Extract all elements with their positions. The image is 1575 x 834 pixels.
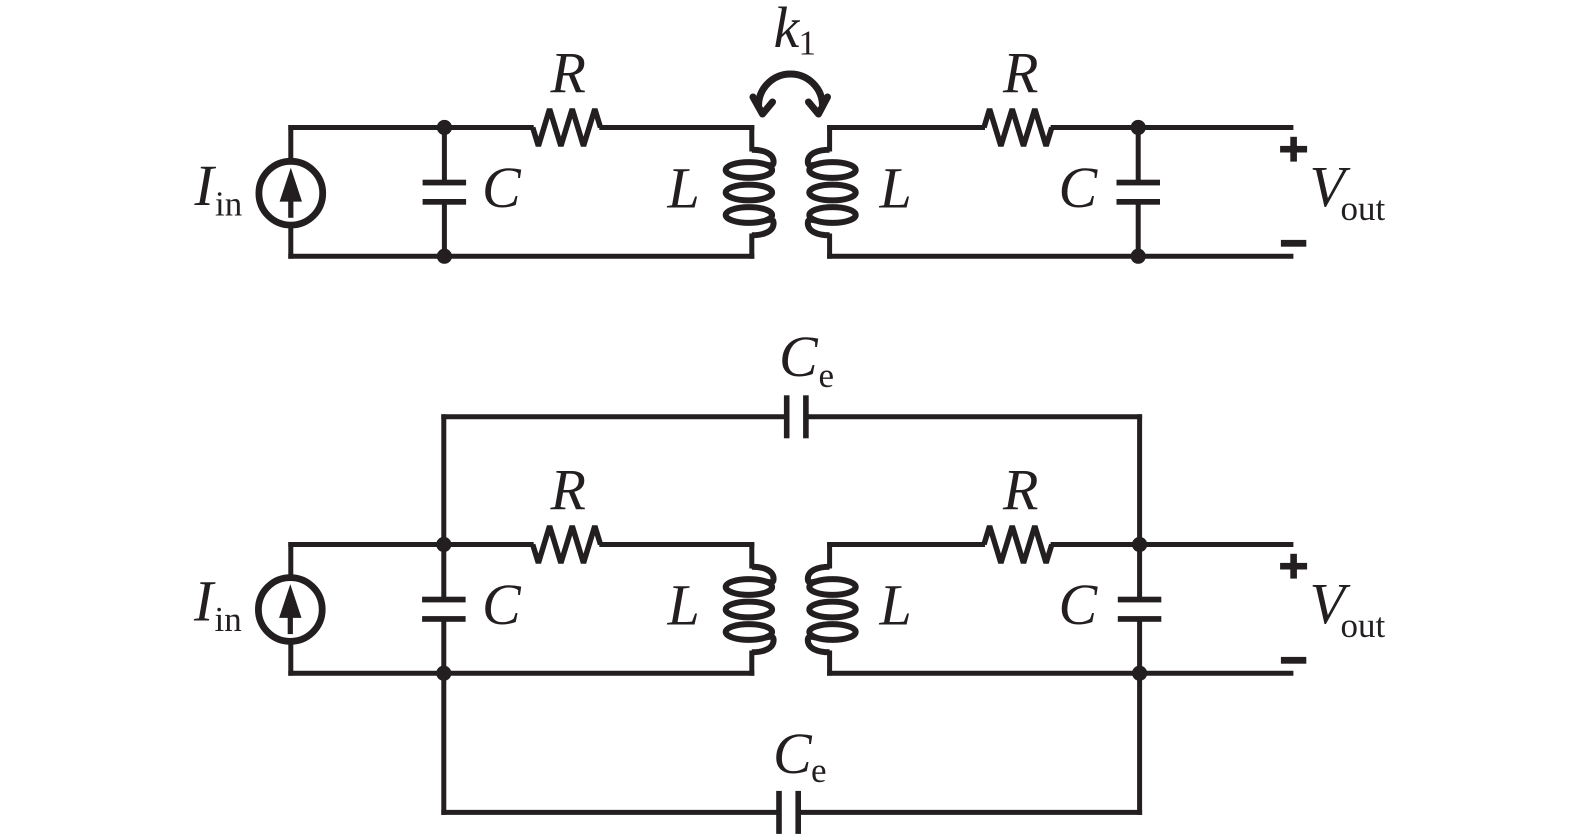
svg-text:L: L — [667, 156, 700, 221]
wire: outer bottom wire left segment (to Ce) — [441, 810, 778, 815]
wire: source left vertical bottom stub (bottom circuit) — [288, 641, 293, 676]
node dot: top-left node — [437, 120, 452, 135]
node dot: bottom-left node — [437, 249, 452, 264]
wire: left inductor top stub (top circuit) — [749, 125, 754, 152]
capacitor C (top-left shunt) — [423, 180, 467, 186]
wire: shunt capacitor C lower lead (top-left) — [442, 202, 447, 256]
wire: top-left horizontal (source to resistor R) — [288, 125, 533, 130]
svg-text:R: R — [1002, 457, 1038, 522]
svg-text:I: I — [193, 569, 216, 634]
resistor R (bottom-left) — [533, 526, 601, 563]
svg-text:L: L — [667, 573, 700, 638]
node dot: top-right node — [1131, 120, 1146, 135]
wire: outer loop left vertical (Ce branch) — [441, 414, 446, 544]
wire: right inductor stubs (bottom circuit) — [827, 542, 832, 569]
svg-text:e: e — [819, 356, 835, 395]
wire: outer top wire right segment (from Ce) — [807, 414, 1143, 419]
resistor R (bottom-right) — [984, 526, 1052, 563]
wire: resistor to left inductor (bottom circuit) — [599, 542, 754, 547]
wire: right inductor to resistor R (top) — [827, 125, 985, 130]
node dot: bottom-right node (bottom circuit) — [1132, 666, 1147, 681]
inductor L (bottom-right) — [808, 567, 830, 583]
svg-text:out: out — [1341, 606, 1386, 645]
inductor L (bottom-left) — [752, 567, 774, 583]
wire: shunt capacitor C leads (bottom-right) — [1137, 545, 1142, 600]
coupling arrow k1 right arrowhead — [809, 97, 828, 114]
wire: top-left horizontal (source to resistor R, bottom circuit) — [288, 542, 533, 547]
node dot: bottom-right node — [1131, 249, 1146, 264]
wire: right inductor to resistor R (bottom circuit) — [827, 542, 985, 547]
svg-text:L: L — [879, 156, 912, 221]
svg-text:1: 1 — [799, 24, 817, 63]
coupling arrow k1 arc — [759, 74, 823, 106]
wire: bottom-left horizontal (source to inductor, bottom circuit) — [288, 671, 754, 676]
wire: left inductor stubs (bottom circuit) — [749, 542, 754, 569]
svg-text:C: C — [779, 324, 819, 389]
wire: shunt capacitor C upper lead (top-right) — [1136, 128, 1141, 183]
svg-text:C: C — [482, 572, 522, 637]
resistor R (top-left) — [533, 109, 601, 146]
svg-text:C: C — [1059, 155, 1099, 220]
plus terminal (bottom Vout) — [1280, 563, 1307, 570]
current source I_in (top circuit) — [259, 161, 323, 225]
wire: outer top wire left segment (to Ce) — [441, 414, 786, 419]
wire: left inductor bottom stub (top circuit) — [749, 234, 754, 259]
capacitor Ce (top coupling) — [784, 395, 790, 438]
svg-text:C: C — [482, 155, 522, 220]
svg-text:L: L — [879, 573, 912, 638]
capacitor Ce (bottom coupling) — [776, 791, 782, 834]
wire: shunt capacitor C leads (bottom-left) — [441, 545, 446, 600]
wire: resistor to output (top-right horizontal) — [1051, 125, 1294, 130]
capacitor C (top-right shunt) — [1117, 180, 1161, 186]
plus terminal (top Vout) — [1280, 146, 1307, 153]
inductor L (top-left) — [752, 150, 774, 166]
svg-text:out: out — [1341, 189, 1386, 228]
svg-text:C: C — [1059, 572, 1099, 637]
wire: source left vertical top stub — [288, 125, 293, 162]
wire: shunt capacitor C lower lead (top-right) — [1136, 202, 1141, 256]
wire: bottom-right horizontal (inductor to output, bottom circuit) — [827, 671, 1293, 676]
svg-text:R: R — [1002, 40, 1038, 105]
wire: outer loop right vertical (Ce branch) — [1137, 414, 1142, 544]
node dot: top-right node (bottom circuit) — [1132, 537, 1147, 552]
wire: right inductor top stub (top circuit) — [827, 125, 832, 152]
wire: right inductor bottom stub (top circuit) — [827, 234, 832, 259]
inductor L (top-right) — [808, 150, 830, 166]
wire: bottom-right horizontal (inductor to output) — [827, 254, 1293, 259]
wire: shunt capacitor C upper lead (top-left) — [442, 128, 447, 183]
minus terminal (top Vout) — [1281, 240, 1306, 247]
svg-text:C: C — [773, 721, 813, 786]
svg-text:in: in — [215, 600, 242, 639]
node dot: top-left node (bottom circuit) — [436, 537, 451, 552]
capacitor C (bottom-left shunt) — [422, 597, 466, 603]
wire: outer bottom wire right segment (from Ce) — [799, 810, 1142, 815]
node dot: bottom-left node (bottom circuit) — [436, 666, 451, 681]
svg-text:k: k — [774, 0, 801, 60]
wire: source left vertical bottom stub — [288, 224, 293, 259]
svg-text:in: in — [215, 184, 242, 223]
wire: source left vertical top stub (bottom circuit) — [288, 542, 293, 579]
svg-text:R: R — [550, 40, 586, 105]
coupling arrow k1 left arrowhead — [753, 97, 773, 114]
current source I_in (bottom circuit) — [258, 578, 322, 642]
wire: resistor to left inductor (top) — [599, 125, 754, 130]
wire: bottom-left horizontal (source to inductor L) — [288, 254, 754, 259]
capacitor C (bottom-right shunt) — [1118, 597, 1162, 603]
svg-text:R: R — [550, 457, 586, 522]
wire: resistor to output (bottom-right horizontal) — [1051, 542, 1294, 547]
resistor R (top-right) — [984, 109, 1052, 146]
svg-text:e: e — [811, 751, 827, 790]
minus terminal (bottom Vout) — [1281, 657, 1306, 664]
svg-text:I: I — [194, 153, 217, 218]
